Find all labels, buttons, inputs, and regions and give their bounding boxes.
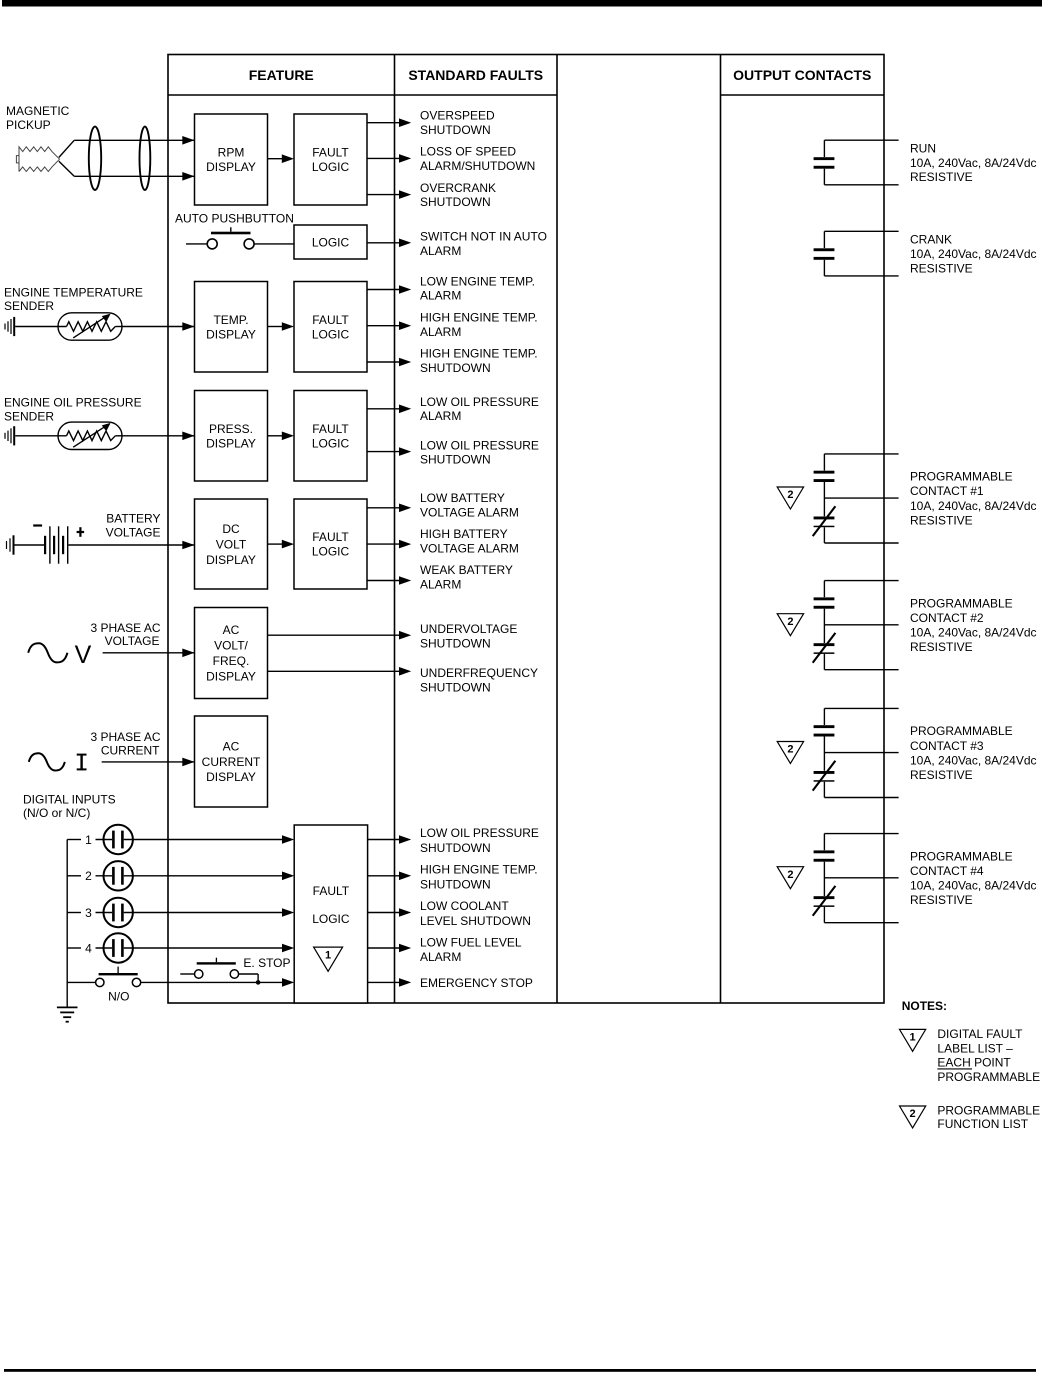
flag triangle 1 (note) xyxy=(900,1029,926,1051)
arrow xyxy=(399,285,411,294)
AC source symbol (current) xyxy=(29,753,65,770)
arrow xyxy=(399,872,411,881)
digital input 1 xyxy=(67,825,133,854)
wire xyxy=(367,122,399,124)
relay contact PROGRAMMABLE CONTACT #3 xyxy=(813,708,899,797)
svg-text:TEMP.: TEMP. xyxy=(213,313,248,327)
svg-text:10A, 240Vac, 8A/24Vdc: 10A, 240Vac, 8A/24Vdc xyxy=(910,879,1037,893)
fault label SWITCH NOT IN AUTO ALARM xyxy=(420,230,547,258)
svg-text:VOLTAGE ALARM: VOLTAGE ALARM xyxy=(420,505,519,519)
svg-text:1: 1 xyxy=(85,833,92,847)
svg-text:SHUTDOWN: SHUTDOWN xyxy=(420,361,491,375)
arrow xyxy=(399,908,411,917)
svg-text:PICKUP: PICKUP xyxy=(6,118,51,132)
arrow into fault logic xyxy=(282,835,294,844)
svg-text:HIGH ENGINE TEMP.: HIGH ENGINE TEMP. xyxy=(420,347,538,361)
svg-text:EMERGENCY STOP: EMERGENCY STOP xyxy=(420,976,533,990)
label V xyxy=(75,641,92,669)
arrow xyxy=(399,835,411,844)
arrow xyxy=(399,154,411,163)
fault label HIGH ENGINE TEMP. SHUTDOWN xyxy=(420,863,538,892)
arrow into fault logic xyxy=(282,908,294,917)
label AUTO PUSHBUTTON xyxy=(175,212,294,226)
svg-text:2: 2 xyxy=(85,869,92,883)
svg-text:SHUTDOWN: SHUTDOWN xyxy=(420,453,491,467)
svg-text:V: V xyxy=(75,641,92,669)
label 3 PHASE AC VOLTAGE xyxy=(90,621,160,648)
svg-text:LOW OIL PRESSURE: LOW OIL PRESSURE xyxy=(420,826,539,840)
digital input 4 xyxy=(67,933,133,962)
svg-text:BATTERY: BATTERY xyxy=(106,512,160,526)
svg-text:CONTACT #2: CONTACT #2 xyxy=(910,611,984,625)
arrow into DC volt display xyxy=(182,541,194,550)
svg-text:DISPLAY: DISPLAY xyxy=(206,160,256,174)
svg-text:2: 2 xyxy=(787,744,793,756)
svg-text:FAULT: FAULT xyxy=(312,146,349,160)
fault label OVERCRANK SHUTDOWN xyxy=(420,181,496,209)
wire xyxy=(368,839,400,841)
wire xyxy=(367,361,399,363)
svg-text:2: 2 xyxy=(910,1108,916,1120)
arrow xyxy=(399,447,411,456)
top title bar xyxy=(2,0,1042,7)
wire RPM to fault logic xyxy=(268,158,283,160)
svg-text:VOLTAGE: VOLTAGE xyxy=(106,525,161,539)
wire xyxy=(367,157,399,159)
wire ground to battery xyxy=(15,544,45,546)
label N/O xyxy=(108,990,129,1004)
header FEATURE xyxy=(249,67,314,83)
arrow into fault logic (emergency line) xyxy=(282,978,294,987)
svg-text:HIGH ENGINE TEMP.: HIGH ENGINE TEMP. xyxy=(420,863,538,877)
wire input to fault logic xyxy=(124,947,288,949)
svg-text:DISPLAY: DISPLAY xyxy=(206,670,256,684)
auto pushbutton switch xyxy=(186,227,254,249)
svg-text:LOW BATTERY: LOW BATTERY xyxy=(420,491,505,505)
svg-text:DIGITAL INPUTS: DIGITAL INPUTS xyxy=(23,792,116,806)
wire xyxy=(367,325,399,327)
svg-text:ENGINE OIL PRESSURE: ENGINE OIL PRESSURE xyxy=(4,395,142,409)
fault label LOW FUEL LEVEL ALARM xyxy=(420,935,522,964)
relay contact CRANK xyxy=(814,231,899,276)
svg-text:OVERSPEED: OVERSPEED xyxy=(420,109,495,123)
svg-text:VOLT/: VOLT/ xyxy=(214,639,248,653)
flag triangle 2 (#4) xyxy=(777,867,803,889)
arrow into fault logic xyxy=(282,322,294,331)
svg-text:SHUTDOWN: SHUTDOWN xyxy=(420,878,491,892)
magnetic pickup sensor xyxy=(16,147,59,172)
fault label UNDERVOLTAGE SHUTDOWN xyxy=(420,622,517,650)
wire temp display to fault logic xyxy=(268,326,283,328)
flag triangle 2 (#1) xyxy=(777,487,803,509)
svg-text:LOGIC: LOGIC xyxy=(312,160,350,174)
svg-text:LOW FUEL LEVEL: LOW FUEL LEVEL xyxy=(420,935,522,949)
arrow into fault logic xyxy=(282,944,294,953)
sender (variable resistor) xyxy=(58,313,122,340)
svg-text:AUTO PUSHBUTTON: AUTO PUSHBUTTON xyxy=(175,212,294,226)
wire AC voltage to display xyxy=(103,652,200,654)
svg-text:ALARM: ALARM xyxy=(420,409,461,423)
svg-text:ALARM: ALARM xyxy=(420,950,461,964)
fault label UNDERFREQUENCY SHUTDOWN xyxy=(420,666,538,695)
svg-text:UNDERFREQUENCY: UNDERFREQUENCY xyxy=(420,666,538,680)
svg-text:ALARM/SHUTDOWN: ALARM/SHUTDOWN xyxy=(420,159,535,173)
arrow into fault logic xyxy=(282,872,294,881)
wire sender to display xyxy=(122,326,199,328)
arrow into RPM DISPLAY top xyxy=(182,136,194,145)
block FAULT LOGIC (battery) xyxy=(294,499,367,589)
flag triangle 1 (digital fault label list) xyxy=(314,947,343,971)
label PROGRAMMABLE CONTACT #1 xyxy=(910,470,1037,528)
svg-text:LOGIC: LOGIC xyxy=(312,235,350,249)
wire xyxy=(368,912,400,914)
block FAULT LOGIC (pressure) xyxy=(294,391,367,482)
svg-text:FAULT: FAULT xyxy=(312,313,349,327)
arrow xyxy=(399,576,411,585)
svg-text:HIGH ENGINE TEMP.: HIGH ENGINE TEMP. xyxy=(420,311,538,325)
svg-text:CONTACT #4: CONTACT #4 xyxy=(910,864,984,878)
chassis ground xyxy=(5,317,14,336)
svg-text:10A, 240Vac, 8A/24Vdc: 10A, 240Vac, 8A/24Vdc xyxy=(910,247,1037,261)
fault label LOW BATTERY VOLTAGE ALARM xyxy=(420,491,519,519)
svg-text:DC: DC xyxy=(222,522,240,536)
label ENGINE OIL PRESSURE xyxy=(4,395,142,423)
wire pickup bottom lead xyxy=(74,175,199,177)
arrow xyxy=(399,631,411,640)
svg-text:OUTPUT CONTACTS: OUTPUT CONTACTS xyxy=(733,67,871,83)
wire xyxy=(367,408,399,410)
label I xyxy=(77,754,87,771)
wire battery to DC volt display xyxy=(68,544,199,546)
svg-text:FREQ.: FREQ. xyxy=(213,654,250,668)
svg-text:E. STOP: E. STOP xyxy=(243,956,290,970)
wire xyxy=(368,947,400,949)
relay contact RUN xyxy=(814,140,899,185)
svg-text:1: 1 xyxy=(910,1032,916,1044)
svg-text:PROGRAMMABLE: PROGRAMMABLE xyxy=(910,724,1013,738)
switch N/O xyxy=(67,967,141,987)
fault label EMERGENCY STOP xyxy=(420,976,533,990)
svg-text:(N/O or N/C): (N/O or N/C) xyxy=(23,806,90,820)
svg-text:SHUTDOWN: SHUTDOWN xyxy=(420,680,491,694)
svg-text:OVERCRANK: OVERCRANK xyxy=(420,181,496,195)
svg-text:RUN: RUN xyxy=(910,141,936,155)
arrow xyxy=(399,667,411,676)
svg-text:DIGITAL FAULT: DIGITAL FAULT xyxy=(937,1027,1023,1041)
block FAULT LOGIC (temp) xyxy=(294,282,367,373)
table frame xyxy=(168,55,884,1004)
svg-text:10A, 240Vac, 8A/24Vdc: 10A, 240Vac, 8A/24Vdc xyxy=(910,626,1037,640)
flag triangle 2 (#3) xyxy=(777,742,803,764)
arrow xyxy=(399,405,411,414)
svg-text:SHUTDOWN: SHUTDOWN xyxy=(420,841,491,855)
svg-text:VOLT: VOLT xyxy=(216,537,247,551)
arrow into display xyxy=(182,432,194,441)
arrow xyxy=(399,944,411,953)
svg-text:NOTES:: NOTES: xyxy=(902,999,947,1013)
svg-text:LOSS OF SPEED: LOSS OF SPEED xyxy=(420,144,516,158)
svg-text:CURRENT: CURRENT xyxy=(202,755,261,769)
wire AC current to display xyxy=(102,761,200,763)
wire N/O to fault logic xyxy=(141,981,288,983)
svg-text:3: 3 xyxy=(85,906,92,920)
fault label OVERSPEED SHUTDOWN xyxy=(420,109,495,138)
wire ground to sender xyxy=(15,435,66,437)
svg-text:VOLTAGE ALARM: VOLTAGE ALARM xyxy=(420,542,519,556)
svg-text:PROGRAMMABLE: PROGRAMMABLE xyxy=(910,470,1013,484)
wire xyxy=(367,451,399,453)
svg-text:AC: AC xyxy=(223,623,240,637)
wire xyxy=(367,242,399,244)
digital input 2 xyxy=(67,861,133,890)
svg-text:RESISTIVE: RESISTIVE xyxy=(910,261,973,275)
fault label LOW COOLANT LEVEL SHUTDOWN xyxy=(420,899,531,928)
fault label HIGH BATTERY VOLTAGE ALARM xyxy=(420,527,519,555)
earth ground xyxy=(57,1007,78,1021)
svg-text:RESISTIVE: RESISTIVE xyxy=(910,768,973,782)
label RUN xyxy=(910,141,1037,184)
arrow into RPM DISPLAY bottom xyxy=(182,172,194,181)
header OUTPUT CONTACTS xyxy=(733,67,871,83)
svg-text:PROGRAMMABLE: PROGRAMMABLE xyxy=(937,1070,1040,1084)
svg-text:HIGH BATTERY: HIGH BATTERY xyxy=(420,527,508,541)
wire DC display to fault logic xyxy=(268,543,283,545)
fault label LOW OIL PRESSURE SHUTDOWN xyxy=(420,439,539,467)
relay contact PROGRAMMABLE CONTACT #1 xyxy=(813,454,899,543)
svg-text:PRESS.: PRESS. xyxy=(209,422,253,436)
svg-text:LOW OIL PRESSURE: LOW OIL PRESSURE xyxy=(420,439,539,453)
digital input bus xyxy=(66,840,68,1008)
arrow into fault logic U1 xyxy=(282,154,294,163)
label 3 PHASE AC CURRENT xyxy=(90,730,160,758)
wire ground to sender xyxy=(15,326,66,328)
junction xyxy=(256,980,261,985)
arrow xyxy=(399,239,411,248)
svg-text:UNDERVOLTAGE: UNDERVOLTAGE xyxy=(420,622,517,636)
svg-text:SENDER: SENDER xyxy=(4,299,54,313)
wire input to fault logic xyxy=(124,912,288,914)
svg-text:CURRENT: CURRENT xyxy=(101,744,160,758)
svg-text:LOGIC: LOGIC xyxy=(312,912,350,926)
note 1 text xyxy=(937,1027,1040,1084)
label ENGINE TEMPERATURE xyxy=(4,285,143,313)
svg-text:1: 1 xyxy=(325,949,331,961)
svg-text:10A, 240Vac, 8A/24Vdc: 10A, 240Vac, 8A/24Vdc xyxy=(910,753,1037,767)
svg-text:2: 2 xyxy=(787,616,793,628)
shield loop 1 xyxy=(89,127,101,190)
svg-text:LOGIC: LOGIC xyxy=(312,545,350,559)
wire input to fault logic xyxy=(124,875,288,877)
svg-text:SWITCH NOT IN AUTO: SWITCH NOT IN AUTO xyxy=(420,230,547,244)
svg-text:CRANK: CRANK xyxy=(910,233,952,247)
wire xyxy=(367,543,399,545)
svg-text:2: 2 xyxy=(787,869,793,881)
svg-text:CONTACT #1: CONTACT #1 xyxy=(910,484,984,498)
block RPM DISPLAY xyxy=(195,114,268,205)
svg-text:ALARM: ALARM xyxy=(420,325,461,339)
svg-text:LOGIC: LOGIC xyxy=(312,436,350,450)
relay contact PROGRAMMABLE CONTACT #2 xyxy=(813,581,899,670)
svg-text:LABEL LIST –: LABEL LIST – xyxy=(937,1042,1013,1056)
svg-text:DISPLAY: DISPLAY xyxy=(206,327,256,341)
wire xyxy=(367,507,399,509)
block DC VOLT DISPLAY xyxy=(195,499,268,589)
svg-text:4: 4 xyxy=(85,941,92,955)
arrow xyxy=(399,540,411,549)
svg-text:AC: AC xyxy=(223,740,240,754)
fault label WEAK BATTERY ALARM xyxy=(420,563,513,591)
header STANDARD FAULTS xyxy=(408,67,543,83)
wire sender to display xyxy=(122,435,199,437)
wire xyxy=(268,634,400,636)
wire xyxy=(268,670,400,672)
wire pushbutton to LOGIC xyxy=(254,243,294,245)
svg-text:LOW OIL PRESSURE: LOW OIL PRESSURE xyxy=(420,395,539,409)
bottom rule xyxy=(4,1369,1036,1372)
arrow into fault logic xyxy=(282,432,294,441)
shield loop 2 xyxy=(140,127,151,190)
label BATTERY VOLTAGE xyxy=(106,512,161,540)
wire xyxy=(367,194,399,196)
fault label LOW ENGINE TEMP. ALARM xyxy=(420,275,535,303)
block FAULT LOGIC (digital) xyxy=(294,825,367,1003)
arrow xyxy=(399,978,411,987)
label PROGRAMMABLE CONTACT #2 xyxy=(910,596,1037,654)
svg-text:LOGIC: LOGIC xyxy=(312,327,350,341)
block PRESS. DISPLAY xyxy=(195,391,268,482)
arrow into AC volt display xyxy=(182,649,194,658)
chassis ground (battery) xyxy=(7,535,14,554)
note 2 text xyxy=(937,1103,1040,1131)
svg-text:RESISTIVE: RESISTIVE xyxy=(910,514,973,528)
svg-text:PROGRAMMABLE: PROGRAMMABLE xyxy=(910,596,1013,610)
fault label LOSS OF SPEED ALARM/SHUTDOWN xyxy=(420,144,535,172)
relay contact PROGRAMMABLE CONTACT #4 xyxy=(813,834,899,923)
svg-text:FAULT: FAULT xyxy=(312,422,349,436)
svg-text:ALARM: ALARM xyxy=(420,244,461,258)
svg-text:SHUTDOWN: SHUTDOWN xyxy=(420,123,491,137)
svg-text:FEATURE: FEATURE xyxy=(249,67,314,83)
arrow into display xyxy=(182,322,194,331)
svg-text:ALARM: ALARM xyxy=(420,289,461,303)
AC source symbol (voltage) xyxy=(28,643,67,662)
sender (variable resistor) xyxy=(58,422,122,449)
battery B1 xyxy=(33,524,84,563)
svg-text:PROGRAMMABLE: PROGRAMMABLE xyxy=(937,1103,1040,1117)
svg-text:RESISTIVE: RESISTIVE xyxy=(910,170,973,184)
label MAGNETIC PICKUP xyxy=(6,104,70,132)
svg-text:SHUTDOWN: SHUTDOWN xyxy=(420,636,491,650)
arrow xyxy=(399,358,411,367)
label PROGRAMMABLE CONTACT #3 xyxy=(910,724,1037,782)
switch E. STOP xyxy=(180,958,258,983)
svg-text:LOW COOLANT: LOW COOLANT xyxy=(420,899,509,913)
svg-text:ALARM: ALARM xyxy=(420,578,461,592)
svg-text:VOLTAGE: VOLTAGE xyxy=(105,634,160,648)
fault label LOW OIL PRESSURE ALARM xyxy=(420,395,539,423)
svg-text:10A, 240Vac, 8A/24Vdc: 10A, 240Vac, 8A/24Vdc xyxy=(910,156,1037,170)
svg-text:RESISTIVE: RESISTIVE xyxy=(910,640,973,654)
block FAULT LOGIC (speed) xyxy=(294,114,367,205)
fault label HIGH ENGINE TEMP. ALARM xyxy=(420,311,538,339)
svg-text:3 PHASE AC: 3 PHASE AC xyxy=(90,621,160,635)
wire input to fault logic xyxy=(124,839,288,841)
svg-text:N/O: N/O xyxy=(108,990,129,1004)
svg-text:STANDARD FAULTS: STANDARD FAULTS xyxy=(408,67,543,83)
arrow xyxy=(399,190,411,199)
svg-text:DISPLAY: DISPLAY xyxy=(206,553,256,567)
arrow into AC current display xyxy=(182,758,194,767)
fault label HIGH ENGINE TEMP. SHUTDOWN xyxy=(420,347,538,375)
svg-text:WEAK BATTERY: WEAK BATTERY xyxy=(420,563,513,577)
svg-text:ENGINE TEMPERATURE: ENGINE TEMPERATURE xyxy=(4,285,143,299)
svg-text:RESISTIVE: RESISTIVE xyxy=(910,893,973,907)
block AC VOLT/FREQ. DISPLAY xyxy=(195,608,268,699)
wire press display to fault logic xyxy=(268,435,283,437)
wire xyxy=(367,289,399,291)
wire xyxy=(368,875,400,877)
svg-text:LOW ENGINE TEMP.: LOW ENGINE TEMP. xyxy=(420,275,535,289)
svg-text:FUNCTION LIST: FUNCTION LIST xyxy=(937,1117,1028,1131)
svg-text:RPM: RPM xyxy=(218,146,245,160)
svg-text:FAULT: FAULT xyxy=(313,884,350,898)
arrow xyxy=(399,118,411,127)
svg-text:SENDER: SENDER xyxy=(4,409,54,423)
svg-text:10A, 240Vac, 8A/24Vdc: 10A, 240Vac, 8A/24Vdc xyxy=(910,499,1037,513)
svg-text:SHUTDOWN: SHUTDOWN xyxy=(420,195,491,209)
block LOGIC (auto switch) xyxy=(294,225,367,259)
svg-text:FAULT: FAULT xyxy=(312,530,349,544)
svg-text:DISPLAY: DISPLAY xyxy=(206,770,256,784)
label DIGITAL INPUTS xyxy=(23,792,116,820)
svg-text:DISPLAY: DISPLAY xyxy=(206,436,256,450)
wire xyxy=(367,580,399,582)
label CRANK xyxy=(910,233,1037,276)
label PROGRAMMABLE CONTACT #4 xyxy=(910,849,1037,907)
wire pickup fan-out xyxy=(59,140,74,176)
svg-text:PROGRAMMABLE: PROGRAMMABLE xyxy=(910,849,1013,863)
chassis ground xyxy=(5,426,14,445)
fault label LOW OIL PRESSURE SHUTDOWN xyxy=(420,826,539,855)
wire pickup top lead xyxy=(74,139,199,141)
svg-text:2: 2 xyxy=(787,489,793,501)
flag triangle 2 (note) xyxy=(900,1106,926,1128)
svg-text:LEVEL SHUTDOWN: LEVEL SHUTDOWN xyxy=(420,914,531,928)
block AC CURRENT DISPLAY xyxy=(195,716,268,807)
wire xyxy=(368,981,400,983)
arrow xyxy=(399,504,411,513)
flag triangle 2 (#2) xyxy=(777,614,803,636)
block TEMP. DISPLAY xyxy=(195,282,268,373)
svg-text:EACH POINT: EACH POINT xyxy=(937,1056,1011,1070)
digital input 3 xyxy=(67,898,133,927)
svg-text:MAGNETIC: MAGNETIC xyxy=(6,104,70,118)
arrow into fault logic xyxy=(282,540,294,549)
svg-text:CONTACT #3: CONTACT #3 xyxy=(910,739,984,753)
label E. STOP xyxy=(243,956,290,970)
svg-text:3 PHASE AC: 3 PHASE AC xyxy=(90,730,160,744)
arrow xyxy=(399,321,411,330)
label NOTES: xyxy=(902,999,947,1013)
